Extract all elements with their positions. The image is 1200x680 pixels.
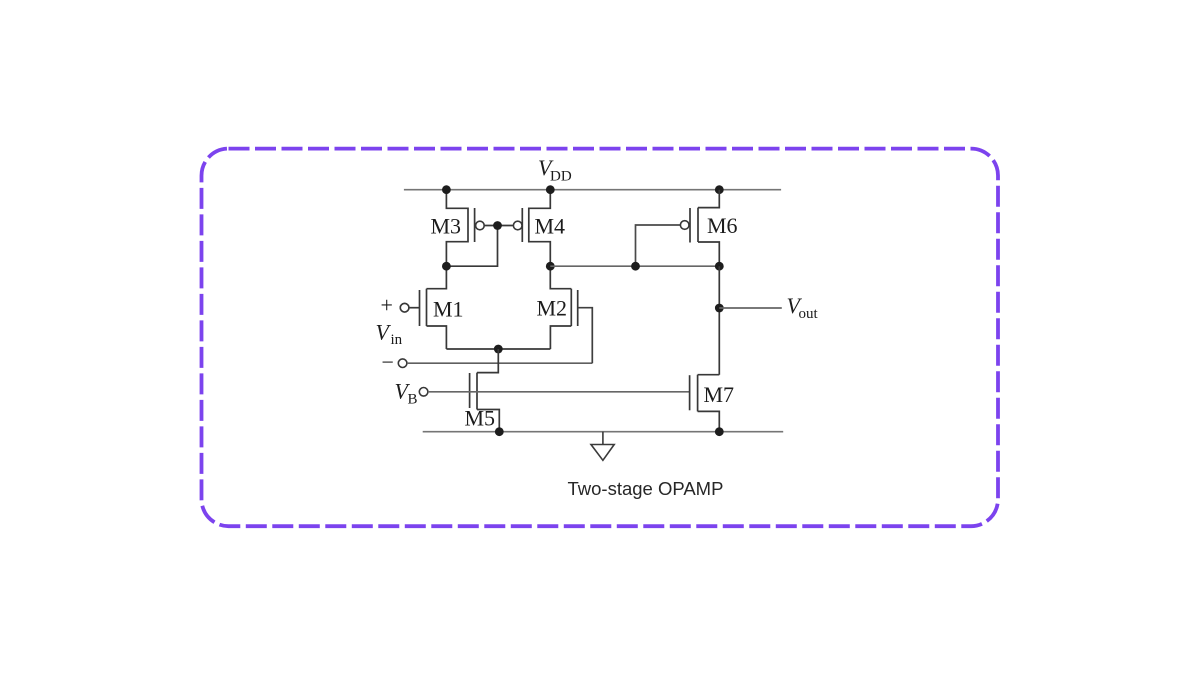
svg-text:Two-stage OPAMP: Two-stage OPAMP	[568, 478, 724, 499]
junction: M3/M4 gate node	[493, 221, 502, 230]
input + terminal	[381, 293, 409, 318]
svg-text:M5: M5	[465, 406, 496, 431]
net label Vin	[376, 320, 403, 349]
VB input terminal	[419, 388, 428, 397]
junction: VDD at M4	[546, 185, 555, 194]
svg-text:M3: M3	[431, 213, 462, 238]
transistor M6	[680, 190, 737, 267]
transistor M4	[513, 190, 565, 267]
svg-text:B: B	[408, 392, 418, 408]
svg-text:in: in	[391, 332, 403, 348]
junction: ground rail at M5	[495, 427, 504, 436]
svg-text:M2: M2	[537, 296, 568, 321]
junction: VDD at M6	[715, 185, 724, 194]
wire: ground rail	[423, 431, 784, 433]
junction: gate feed tap	[631, 262, 640, 271]
junction: ground rail at M7	[715, 427, 724, 436]
wire: VB bias line	[428, 391, 690, 393]
svg-text:M7: M7	[704, 382, 735, 407]
junction: M6 source node	[715, 262, 724, 271]
junction: M4 drain node	[546, 262, 555, 271]
junction: Vout node	[715, 304, 724, 313]
input - terminal	[382, 350, 407, 375]
transistor M3	[431, 190, 485, 267]
svg-text:DD: DD	[550, 169, 572, 185]
wire: M3 gate-drain tie	[446, 226, 497, 267]
junction: first-stage output (M3 drain)	[442, 262, 451, 271]
wire: stage link (M4 drain to M6 source)	[550, 265, 719, 267]
wire: Vout stub	[719, 307, 782, 309]
svg-text:+: +	[381, 293, 393, 318]
net label VB	[395, 379, 418, 408]
transistor M7	[690, 375, 734, 432]
wire: differential pair tail	[446, 348, 550, 350]
svg-text:M4: M4	[535, 213, 566, 238]
wire: inverting input to M2 gate	[407, 362, 592, 364]
transistor M5	[465, 349, 500, 432]
wire: M6 gate feed	[636, 225, 681, 266]
net label VDD	[538, 155, 572, 185]
svg-text:−: −	[382, 350, 394, 375]
wire: output net vertical	[718, 266, 720, 375]
svg-text:M6: M6	[707, 213, 738, 238]
transistor M2	[537, 266, 578, 349]
junction: tail node	[494, 345, 503, 354]
transistor M1	[400, 266, 463, 349]
svg-text:out: out	[799, 306, 819, 322]
wire: VDD rail	[404, 189, 781, 191]
wire: M3-M4 gate tie	[484, 225, 513, 227]
net label Vout	[787, 293, 819, 322]
svg-text:M1: M1	[433, 296, 464, 321]
ground symbol	[591, 432, 614, 461]
junction: VDD at M3	[442, 185, 451, 194]
